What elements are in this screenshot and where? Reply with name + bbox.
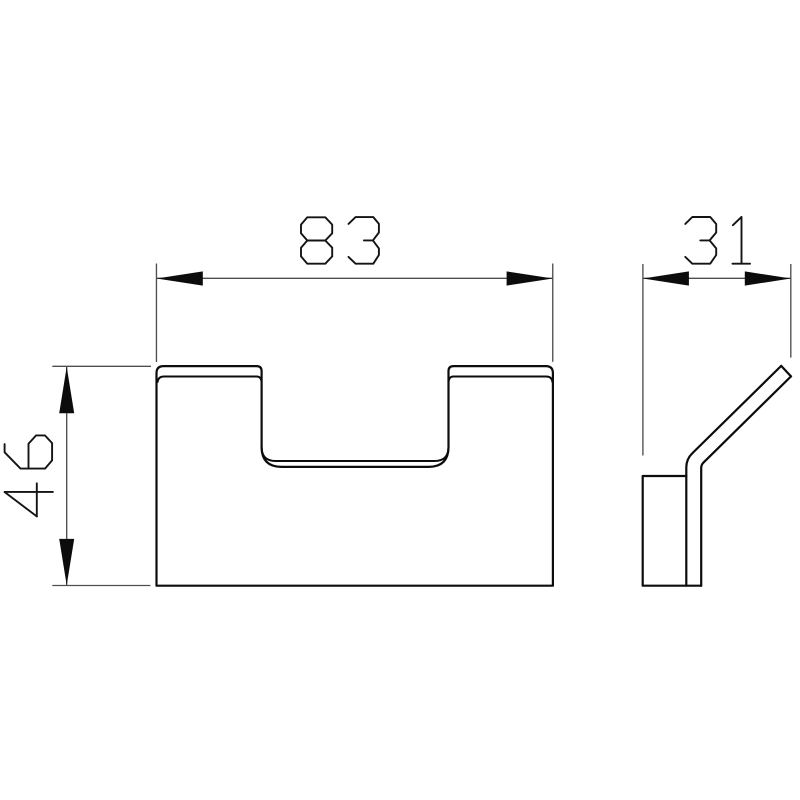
front view inner face edge left	[158, 377, 262, 383]
dimension 46 arrow bottom	[59, 539, 74, 585]
dimension 31 extension line right	[790, 264, 792, 358]
dimension 31 line	[643, 277, 791, 279]
dimension 83 extension line left	[155, 264, 157, 363]
dimension text 1 of 31	[733, 217, 751, 264]
dimension 83 extension line right	[552, 264, 554, 362]
dimension 83 arrow left	[157, 271, 203, 285]
side view hook arm front line	[701, 376, 791, 585]
dimension 46 extension line bottom	[52, 585, 150, 587]
dimension 46 line	[66, 366, 68, 585]
side view hook tip cut	[781, 366, 791, 377]
dimension 46 arrow top	[59, 367, 74, 414]
front view outer outline	[157, 366, 553, 586]
dimension text 3 of 31	[685, 217, 716, 264]
dimension 31 extension line left	[642, 264, 644, 456]
dimension text 8	[301, 217, 332, 263]
front view inner face edge right	[449, 377, 553, 383]
dimension 46 extension line top	[52, 365, 151, 367]
dimension text 4 rotated	[5, 483, 53, 516]
dimension 31 arrow right	[745, 271, 791, 285]
side view hook arm rear line	[686, 366, 781, 586]
dimension text 3 of 83	[349, 217, 379, 264]
dimension 83 arrow right	[507, 271, 553, 285]
dimension text 6 rotated	[5, 435, 53, 468]
dimension 31 arrow left	[643, 271, 689, 285]
front view inner face edge notch bottom	[262, 447, 449, 461]
side view wall plate	[643, 476, 702, 586]
dimension 83 line	[157, 277, 553, 279]
